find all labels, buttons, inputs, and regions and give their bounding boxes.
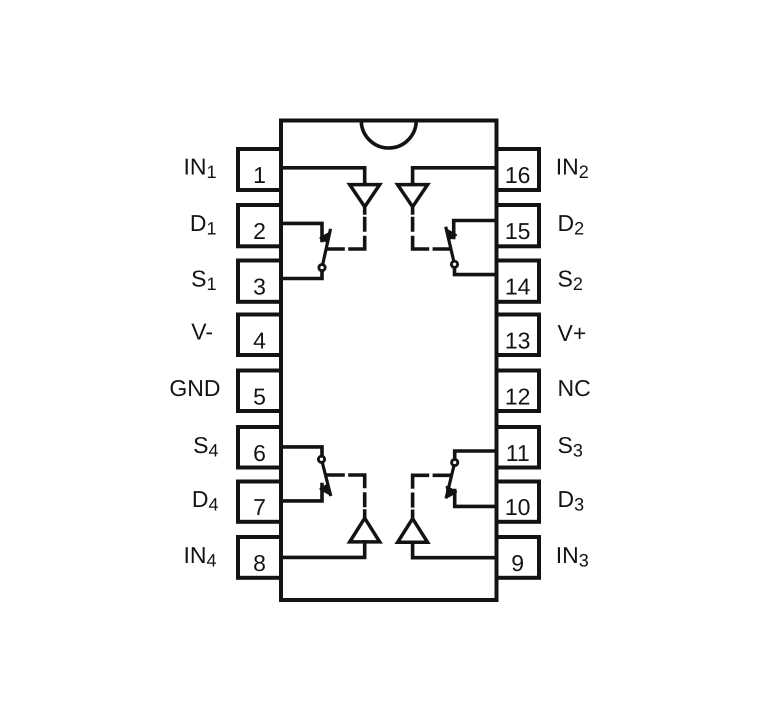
pin 12 box: [497, 371, 540, 412]
svg-text:9: 9: [511, 550, 524, 576]
switch SW3 contact circle: [452, 459, 458, 465]
dashed control line SW4 to buffer U4: [328, 475, 365, 517]
svg-text:GND: GND: [169, 375, 220, 401]
switch SW4 contact circle: [318, 456, 324, 462]
switch SW2 arrowhead: [447, 230, 456, 239]
switch SW3 arrowhead: [447, 487, 456, 496]
svg-text:10: 10: [505, 494, 531, 520]
svg-text:16: 16: [505, 162, 531, 188]
pin 8 box: [238, 537, 281, 578]
switch SW1 arm: [322, 230, 330, 267]
pin 1 box: [238, 149, 281, 190]
dashed control line U2 to SW2: [413, 208, 450, 250]
switch SW1 contact circle: [319, 265, 325, 271]
pin 2 box: [238, 205, 281, 246]
pin 11 box: [497, 427, 540, 468]
svg-text:2: 2: [253, 218, 266, 244]
svg-text:V+: V+: [558, 320, 587, 346]
pin 5 box: [238, 371, 281, 412]
wire pin16 to buffer U2: [413, 168, 497, 185]
dashed control line SW3 to buffer U3: [413, 475, 450, 517]
pin 7 box: [238, 482, 281, 522]
wire pin15 (D2) with stub: [454, 221, 497, 238]
buffer U4 (driven from pin 8): [350, 518, 380, 542]
pin 13 box: [497, 315, 540, 356]
pin 10 box: [497, 482, 540, 522]
buffer U2 (drives SW2): [398, 185, 428, 207]
wire pin7 (D4) with stub: [281, 485, 322, 501]
svg-text:12: 12: [505, 383, 531, 409]
pin 14 box: [497, 261, 540, 302]
switch SW4 arrowhead: [321, 485, 330, 494]
svg-text:1: 1: [253, 162, 266, 188]
wire pin6 (S4): [281, 447, 322, 459]
svg-text:13: 13: [505, 327, 531, 353]
svg-text:8: 8: [253, 550, 266, 576]
wire pin8 to buffer U4: [281, 542, 365, 558]
switch SW1 arrowhead: [321, 233, 330, 242]
svg-text:4: 4: [253, 327, 266, 353]
svg-text:5: 5: [253, 383, 266, 409]
svg-text:3: 3: [253, 274, 266, 300]
pin-1 index notch: [361, 121, 416, 148]
pin 9 box: [497, 537, 540, 578]
svg-text:14: 14: [505, 274, 531, 300]
svg-text:6: 6: [253, 440, 266, 466]
pin 3 box: [238, 261, 281, 302]
wire pin14 (S2): [455, 264, 497, 274]
switch SW4 arm: [322, 459, 331, 494]
buffer U3 (driven from pin 9): [398, 519, 428, 543]
pin 4 box: [238, 315, 281, 356]
switch SW2 arm: [446, 228, 454, 264]
svg-text:V-: V-: [191, 319, 213, 345]
svg-text:7: 7: [253, 494, 266, 520]
wire pin2 (D1) with stub: [281, 223, 322, 240]
buffer U1 (drives SW1): [350, 185, 380, 207]
pin 6 box: [238, 427, 281, 468]
svg-text:15: 15: [505, 218, 531, 244]
wire pin10 (D3) with stub: [455, 491, 497, 507]
svg-text:NC: NC: [558, 375, 591, 401]
pin 16 box: [497, 149, 540, 190]
wire pin11 (S3): [455, 451, 497, 463]
dashed control line U1 to SW1: [328, 208, 365, 250]
switch SW2 contact circle: [451, 261, 457, 267]
pin 15 box: [497, 205, 540, 246]
svg-text:11: 11: [506, 440, 530, 466]
wire pin1 to buffer U1: [281, 168, 365, 185]
IC body outline: [281, 121, 497, 601]
wire pin9 to buffer U3: [413, 542, 497, 557]
switch SW3 arm: [446, 463, 454, 497]
wire pin3 (S1): [281, 268, 322, 279]
